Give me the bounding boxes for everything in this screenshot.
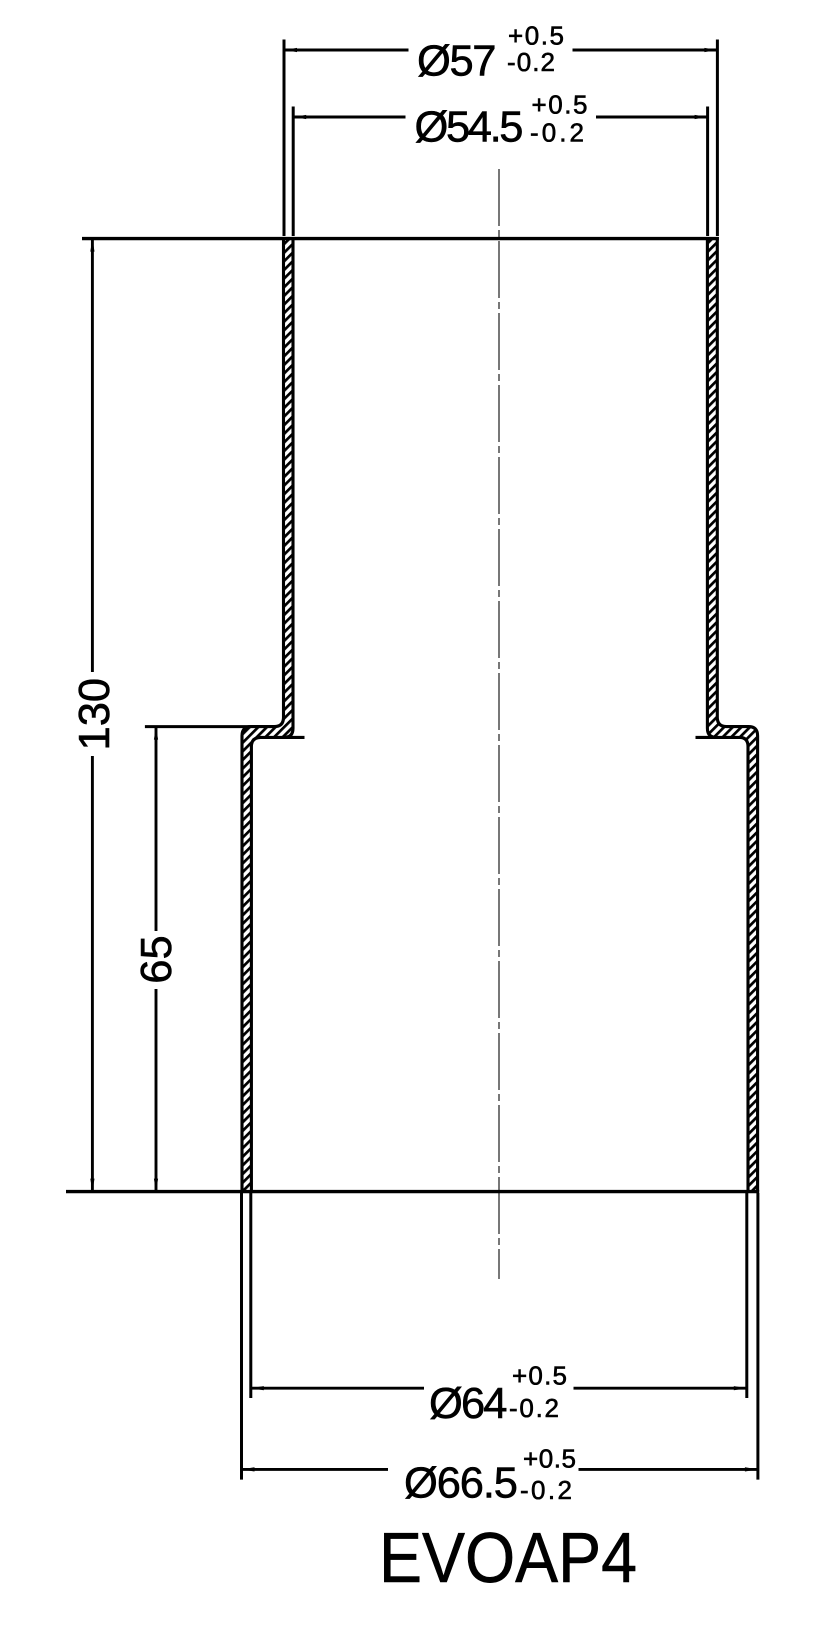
wall outline right inner <box>707 237 748 1192</box>
dim 130 arrow bottom <box>90 1179 94 1192</box>
svg-text:-0.2: -0.2 <box>507 47 555 77</box>
svg-text:Ø57: Ø57 <box>417 37 497 85</box>
dim Ø54.5 arrow left <box>293 115 306 119</box>
svg-text:+0.5: +0.5 <box>523 1443 576 1473</box>
dim Ø64 extension left <box>249 1193 252 1398</box>
dim Ø57 line <box>284 49 409 52</box>
wall section left (hatched) <box>242 237 293 1192</box>
svg-text:130: 130 <box>71 678 119 751</box>
top edge line <box>82 237 719 240</box>
centerline (vertical dash-dot axis) <box>498 169 500 1279</box>
dim Ø57 arrow right <box>704 48 717 52</box>
dim Ø64 arrow right <box>734 1386 747 1390</box>
svg-text:Ø64: Ø64 <box>429 1380 508 1428</box>
shoulder underside tangent left <box>282 736 305 739</box>
svg-text:+0.5: +0.5 <box>512 1360 567 1390</box>
dim Ø54.5 arrow right <box>695 115 708 119</box>
svg-text:65: 65 <box>133 935 181 983</box>
svg-text:EVOAP4: EVOAP4 <box>379 1519 637 1598</box>
dim 130 arrow top <box>90 239 94 252</box>
dim Ø64 arrow left <box>251 1386 264 1390</box>
dim Ø57 arrow left <box>284 48 297 52</box>
dim Ø64 extension right <box>745 1193 748 1398</box>
dim Ø54.5 line <box>293 116 405 119</box>
svg-text:+0.5: +0.5 <box>532 89 588 119</box>
dim Ø66.5 line <box>242 1468 389 1471</box>
svg-text:Ø54.5: Ø54.5 <box>415 104 524 152</box>
dim Ø66.5 arrow left <box>242 1467 255 1471</box>
wall outline left outer <box>242 237 284 1192</box>
dim Ø64 line <box>251 1387 424 1390</box>
wall outline right outer <box>717 237 757 1192</box>
dim 65 arrow top <box>154 727 158 740</box>
dim Ø66.5 arrow right <box>745 1467 758 1471</box>
dim Ø54.5 extension right <box>706 107 709 237</box>
svg-text:Ø66.5: Ø66.5 <box>404 1460 518 1508</box>
dim Ø57 extension right <box>716 40 719 237</box>
wall outline left inner <box>251 237 293 1192</box>
dim Ø54.5 extension left <box>292 107 295 237</box>
shoulder underside tangent right <box>696 736 719 739</box>
dim 65 arrow bottom <box>154 1179 158 1192</box>
wall section right (hatched) <box>707 237 757 1192</box>
dim Ø66.5 extension right <box>756 1193 759 1480</box>
dim Ø66.5 extension left <box>240 1193 243 1480</box>
dim Ø57 extension left <box>283 40 286 237</box>
dim 65 extension line <box>145 725 251 728</box>
dim 65 line <box>155 727 158 931</box>
dim 130 line <box>91 239 94 672</box>
bottom edge line <box>66 1190 759 1193</box>
